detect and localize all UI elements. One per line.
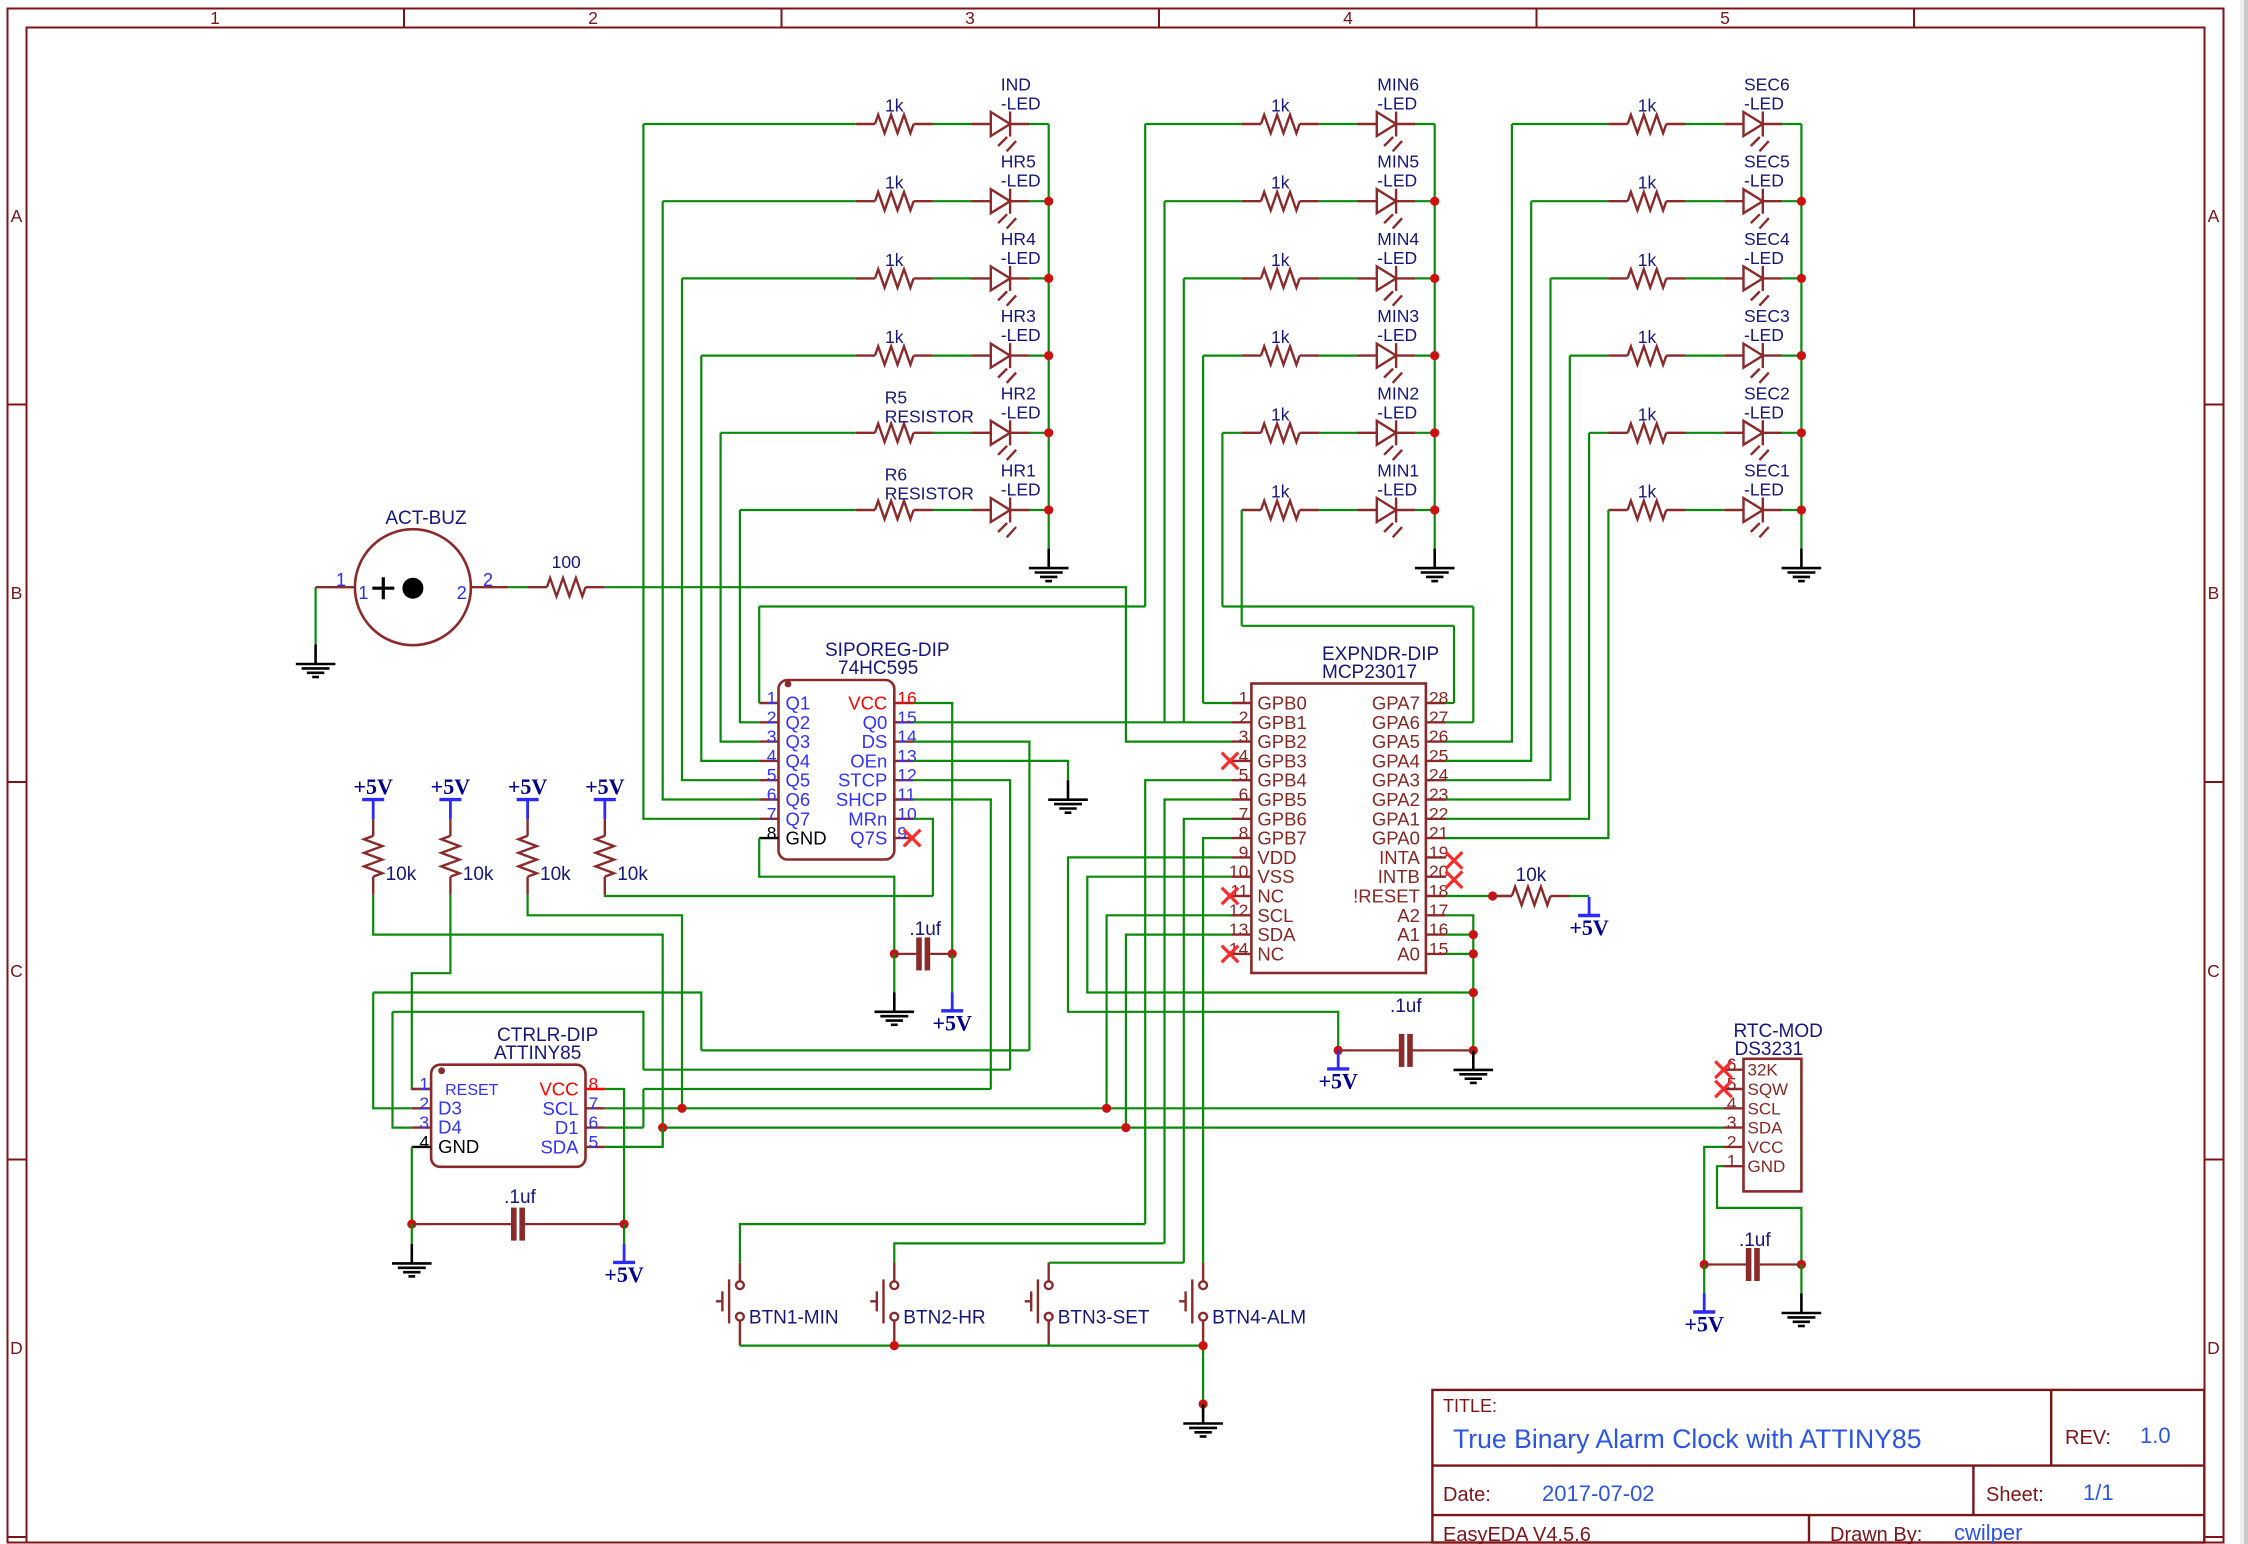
- U3 pin 6 D1: [586, 1126, 605, 1128]
- wire MIN4 row left: [1184, 277, 1242, 279]
- svg-text:1k: 1k: [885, 173, 904, 193]
- U2 pin 5 GPB4: [1232, 779, 1251, 781]
- wire HR5 mid: [933, 200, 972, 202]
- svg-text:1k: 1k: [1638, 404, 1657, 424]
- LED SEC1-LED: [1724, 498, 1782, 538]
- pushbutton BTN1-MIN: [716, 1263, 744, 1346]
- wire IND to cathode bus: [1029, 123, 1048, 125]
- wire VDD to +5V node: [1068, 857, 1338, 1050]
- svg-text:4: 4: [1343, 8, 1353, 28]
- U1 pin 9 Q7S: [894, 837, 913, 839]
- U2 pin 19 INTA: [1426, 856, 1446, 858]
- junction cathode bus: [1797, 351, 1806, 360]
- wire GPA2 to SEC drop: [1446, 356, 1570, 800]
- wire cap left to ground: [893, 954, 895, 992]
- svg-text:21: 21: [1429, 823, 1448, 843]
- U1 pin 7 Q7: [759, 818, 778, 820]
- svg-text:-LED: -LED: [1377, 171, 1417, 191]
- svg-text:BTN3-SET: BTN3-SET: [1058, 1307, 1150, 1328]
- U4 pin 5 SQW: [1724, 1088, 1744, 1090]
- svg-text:+5V: +5V: [1684, 1312, 1724, 1337]
- U1 pin 6 Q6: [759, 798, 778, 800]
- LED HR5-LED: [972, 189, 1030, 229]
- LED MIN1-LED: [1358, 498, 1416, 538]
- capacitor .1uf plates: [916, 937, 930, 970]
- svg-text:1k: 1k: [1638, 327, 1657, 347]
- junction SDA pullup: [658, 1123, 667, 1132]
- wire GPA7 stub link: [1446, 702, 1454, 704]
- svg-text:!RESET: !RESET: [1353, 886, 1420, 907]
- ground U4: [1782, 1294, 1822, 1327]
- svg-text:GPA7: GPA7: [1372, 693, 1420, 714]
- junction A1: [1469, 930, 1478, 939]
- LED MIN6-LED: [1358, 112, 1416, 152]
- wire HR1 row left: [740, 509, 856, 511]
- wire SEC5 mid: [1686, 200, 1725, 202]
- svg-text:Drawn By:: Drawn By:: [1830, 1524, 1922, 1544]
- svg-text:1.0: 1.0: [2140, 1423, 2171, 1448]
- svg-text:8: 8: [767, 823, 777, 843]
- U3 pin 7 SCL: [586, 1107, 605, 1109]
- svg-text:-LED: -LED: [1001, 480, 1041, 500]
- svg-text:2: 2: [588, 8, 598, 28]
- LED HR3-LED: [972, 343, 1030, 383]
- svg-text:18: 18: [1429, 881, 1448, 901]
- U2 pin 15 A0: [1426, 953, 1446, 955]
- LED HR4-LED: [972, 266, 1030, 306]
- U3 pin 2 D3: [412, 1107, 431, 1109]
- junction cap right: [948, 949, 957, 958]
- wire MIN1 to GPA7 (net): [1242, 625, 1454, 627]
- junction SCL pullup: [677, 1104, 686, 1113]
- wire SCL bus: [605, 1107, 1724, 1109]
- svg-text:B: B: [2208, 583, 2220, 603]
- svg-text:1k: 1k: [1271, 327, 1290, 347]
- resistor 1k for MIN3: [1242, 346, 1319, 364]
- svg-text:GPB2: GPB2: [1257, 731, 1306, 752]
- svg-text:10k: 10k: [386, 864, 417, 885]
- +5V U2: [1337, 1050, 1340, 1069]
- junction cathode bus: [1797, 274, 1806, 283]
- svg-text:R5: R5: [885, 387, 907, 407]
- svg-text:+5V: +5V: [353, 774, 393, 799]
- svg-text:1k: 1k: [1638, 173, 1657, 193]
- svg-text:GPA6: GPA6: [1372, 712, 1420, 733]
- svg-text:C: C: [10, 961, 23, 981]
- wire U2 SDA to bus: [1126, 935, 1232, 1128]
- wire pullup1 to SDA net: [373, 895, 663, 1147]
- wire A1 stub link: [1446, 933, 1473, 935]
- wire cap left to +5V: [1703, 1265, 1705, 1294]
- U1 pin 12 STCP: [894, 779, 913, 781]
- LED IND-LED: [972, 112, 1030, 152]
- svg-text:+5V: +5V: [508, 774, 548, 799]
- junction U4 cap right: [1797, 1260, 1806, 1269]
- U3 pin 8 VCC: [586, 1088, 605, 1090]
- resistor 10k pullup: [364, 819, 382, 895]
- svg-text:1/1: 1/1: [2083, 1480, 2114, 1505]
- wire GPB5 down to BTN2 jog: [1165, 800, 1233, 1244]
- IC U2 EXPNDR-DIP MCP23017: [1251, 684, 1426, 974]
- wire Q1 to MIN6 (net): [759, 605, 1145, 607]
- wire U4 GND down: [1717, 1166, 1801, 1264]
- svg-text:D: D: [10, 1338, 23, 1358]
- svg-text:SHCP: SHCP: [836, 789, 887, 810]
- ground buzzer: [296, 645, 336, 678]
- wire BTN2 to GPB5: [894, 1243, 1164, 1262]
- U3 pin 5 SDA: [586, 1146, 605, 1148]
- svg-text:+5V: +5V: [604, 1262, 644, 1287]
- svg-text:13: 13: [897, 746, 916, 766]
- svg-text:5: 5: [767, 765, 777, 785]
- wire HR1 to cathode bus: [1029, 509, 1048, 511]
- resistor 100: [528, 578, 605, 596]
- svg-text:1k: 1k: [885, 250, 904, 270]
- svg-text:GPB0: GPB0: [1257, 693, 1306, 714]
- +5V pullup R0: [372, 800, 375, 820]
- svg-text:MIN6: MIN6: [1377, 75, 1419, 95]
- resistor 1k for SEC4: [1608, 269, 1685, 287]
- svg-text:SCL: SCL: [543, 1098, 579, 1119]
- wire SEC3 mid: [1686, 355, 1725, 357]
- svg-text:SQW: SQW: [1748, 1080, 1789, 1099]
- wire SEC1 to cathode bus: [1782, 509, 1801, 511]
- svg-text:1: 1: [336, 570, 346, 590]
- svg-text:True Binary Alarm Clock with A: True Binary Alarm Clock with ATTINY85: [1453, 1424, 1921, 1454]
- svg-text:GPB7: GPB7: [1257, 828, 1306, 849]
- capacitor .1uf plates: [1399, 1034, 1413, 1067]
- U2 pin 21 GPA0: [1426, 837, 1446, 839]
- svg-text:MIN2: MIN2: [1377, 383, 1419, 403]
- svg-text:GND: GND: [1748, 1157, 1786, 1176]
- wire U1 VCC to +5V: [914, 703, 953, 954]
- wire MIN4 drop vertical: [1183, 278, 1185, 722]
- wire SEC6 mid: [1686, 123, 1725, 125]
- svg-text:Q3: Q3: [786, 731, 811, 752]
- wire cap right to +5V: [623, 1224, 625, 1244]
- svg-text:STCP: STCP: [838, 770, 887, 791]
- wire buzzer to MCP GPB2: [605, 587, 1232, 741]
- svg-text:1k: 1k: [1271, 482, 1290, 502]
- wire SEC3 row left: [1570, 355, 1609, 357]
- svg-text:MIN3: MIN3: [1377, 306, 1419, 326]
- svg-text:7: 7: [767, 804, 777, 824]
- resistor 1k for MIN2: [1242, 424, 1319, 442]
- wire MIN6 row left: [1145, 123, 1242, 125]
- resistor R6 RESISTOR for HR1: [856, 501, 933, 519]
- svg-text:SDA: SDA: [1257, 924, 1296, 945]
- svg-text:GPB1: GPB1: [1257, 712, 1306, 733]
- svg-text:7: 7: [1239, 804, 1249, 824]
- junction SDA U2: [1121, 1123, 1130, 1132]
- wire SEC4 row left: [1551, 277, 1609, 279]
- U1 pin 1 Q1: [759, 702, 778, 704]
- svg-text:10k: 10k: [1516, 865, 1547, 886]
- wire GPA6 vertical: [1472, 607, 1474, 723]
- svg-text:SCL: SCL: [1257, 905, 1293, 926]
- svg-text:1k: 1k: [1638, 250, 1657, 270]
- svg-text:Q4: Q4: [786, 750, 811, 771]
- no-connect X SQW: [1715, 1081, 1732, 1098]
- svg-text:HR5: HR5: [1001, 152, 1036, 172]
- frame column ticks top: [403, 9, 405, 28]
- svg-text:-LED: -LED: [1001, 171, 1041, 191]
- svg-text:-LED: -LED: [1001, 94, 1041, 114]
- svg-text:6: 6: [1239, 785, 1249, 805]
- U2 pin 27 GPA6: [1426, 721, 1446, 723]
- wire Q0 to GPB1: [914, 721, 1232, 723]
- wire DS net horizontal: [701, 1049, 1029, 1051]
- resistor 10k pullup: [518, 819, 536, 895]
- wire D1 vertical to SHCP net: [642, 1089, 644, 1128]
- svg-text:GPB5: GPB5: [1257, 789, 1306, 810]
- svg-text:GPA1: GPA1: [1372, 808, 1420, 829]
- junction cathode bus: [1797, 428, 1806, 437]
- U2 pin 1 GPB0: [1232, 702, 1251, 704]
- svg-text:2: 2: [457, 583, 467, 603]
- wire MIN1 to cathode bus: [1415, 509, 1434, 511]
- svg-text:MIN5: MIN5: [1377, 152, 1419, 172]
- window edge strip: [2240, 0, 2244, 1544]
- no-connect X 32K: [1715, 1061, 1732, 1078]
- wire BTN1 to GPB4: [740, 1224, 1145, 1263]
- buzzer pin 2: [471, 586, 508, 588]
- svg-text:-LED: -LED: [1001, 248, 1041, 268]
- svg-text:15: 15: [897, 707, 916, 727]
- svg-text:-LED: -LED: [1744, 171, 1784, 191]
- U3 pin 1 RESET: [412, 1088, 431, 1090]
- svg-text:3: 3: [1239, 727, 1249, 747]
- svg-text:+5V: +5V: [431, 774, 471, 799]
- resistor 1k for SEC6: [1608, 115, 1685, 133]
- U2 pin 7 GPB6: [1232, 818, 1251, 820]
- wire MIN1 drop vertical: [1241, 510, 1243, 626]
- LED SEC5-LED: [1724, 189, 1782, 229]
- ground LED column: [1782, 549, 1822, 582]
- svg-text:TITLE:: TITLE:: [1443, 1396, 1497, 1416]
- svg-text:14: 14: [897, 727, 917, 747]
- resistor 10k pullup: [596, 819, 614, 895]
- wire U3 SDA to bus: [605, 1128, 663, 1147]
- svg-text:2: 2: [767, 707, 777, 727]
- svg-text:VSS: VSS: [1257, 866, 1294, 887]
- svg-text:.1uf: .1uf: [909, 919, 941, 940]
- svg-text:17: 17: [1429, 900, 1448, 920]
- svg-text:2: 2: [483, 570, 493, 590]
- wire SEC2 row left: [1589, 432, 1608, 434]
- svg-text:ATTINY85: ATTINY85: [494, 1043, 581, 1064]
- svg-text:3: 3: [965, 8, 975, 28]
- LED SEC2-LED: [1724, 420, 1782, 460]
- svg-text:Q0: Q0: [863, 712, 888, 733]
- wire MIN2 to GPA6 (net): [1222, 605, 1473, 607]
- wire MIN6 drop vertical: [1144, 124, 1146, 607]
- wire SEC4 mid: [1686, 277, 1725, 279]
- svg-text:BTN1-MIN: BTN1-MIN: [749, 1307, 839, 1328]
- wire OEn to ground: [914, 761, 1068, 780]
- svg-text:MRn: MRn: [848, 808, 887, 829]
- svg-text:A0: A0: [1397, 943, 1420, 964]
- U2 pin 18 !RESET: [1426, 895, 1446, 897]
- U1 pin 11 SHCP: [894, 798, 913, 800]
- wire D4 net vertical: [393, 1012, 412, 1128]
- wire GPB0 to MIN3: [1203, 702, 1232, 704]
- resistor 1k for SEC3: [1608, 346, 1685, 364]
- wire buzzer to ground: [315, 587, 317, 644]
- no-connect X INTB: [1446, 871, 1463, 888]
- svg-text:SDA: SDA: [540, 1136, 579, 1157]
- wire Q5 to LED row: [682, 278, 759, 780]
- svg-text:+5V: +5V: [1318, 1068, 1358, 1093]
- svg-text:1k: 1k: [885, 327, 904, 347]
- svg-text:100: 100: [552, 552, 581, 572]
- wire U3 VCC down to cap: [605, 1089, 624, 1224]
- wire MIN3 drop vertical to GPB0: [1202, 356, 1204, 703]
- svg-text:1k: 1k: [1271, 404, 1290, 424]
- wire !RESET to 10k: [1446, 895, 1512, 897]
- U2 pin 3 GPB2: [1232, 740, 1251, 742]
- svg-text:10: 10: [897, 804, 917, 824]
- svg-text:26: 26: [1429, 727, 1448, 747]
- LED MIN4-LED: [1358, 266, 1416, 306]
- no-connect X NC11: [1222, 888, 1239, 905]
- wire pullup4 to MRn: [605, 895, 933, 896]
- svg-text:GND: GND: [438, 1136, 479, 1157]
- wire SEC6 row left: [1512, 123, 1609, 125]
- no-connect X GPB3: [1222, 753, 1239, 770]
- svg-text:25: 25: [1429, 746, 1448, 766]
- svg-text:D3: D3: [438, 1097, 462, 1118]
- wire STCP down: [914, 780, 1011, 1069]
- +5V U1: [951, 992, 954, 1011]
- wire GPA7 vertical: [1453, 626, 1455, 703]
- U3 pin 4 GND: [412, 1146, 431, 1148]
- svg-text:ACT-BUZ: ACT-BUZ: [385, 508, 467, 529]
- wire GPB4 down to BTN1 jog: [1145, 780, 1232, 1224]
- svg-text:-LED: -LED: [1377, 94, 1417, 114]
- LED MIN3-LED: [1358, 343, 1416, 383]
- svg-text:27: 27: [1429, 707, 1448, 727]
- U4 pin 2 VCC: [1724, 1146, 1744, 1148]
- svg-text:74HC595: 74HC595: [838, 658, 918, 679]
- svg-text:5: 5: [1239, 765, 1249, 785]
- wire MIN4 to cathode bus: [1415, 277, 1434, 279]
- svg-text:1: 1: [358, 583, 368, 603]
- svg-text:Date:: Date:: [1443, 1484, 1491, 1506]
- svg-text:1k: 1k: [1271, 96, 1290, 116]
- junction cathode bus: [1797, 197, 1806, 206]
- wire 10k to +5V: [1570, 895, 1589, 897]
- wire GPB6 down to BTN3 jog: [1184, 819, 1232, 1263]
- wire GPA5 to SEC drop: [1446, 124, 1512, 742]
- wire Q3 to LED row: [721, 433, 760, 742]
- junction U3 cap left: [407, 1220, 416, 1229]
- U1 pin 13 OEn: [894, 760, 913, 762]
- U2 pin 17 A2: [1426, 914, 1446, 916]
- pushbutton BTN3-SET: [1025, 1263, 1053, 1346]
- svg-text:VCC: VCC: [848, 693, 887, 714]
- junction U2 cap left: [1334, 1046, 1343, 1055]
- svg-text:1: 1: [419, 1074, 429, 1094]
- wire buzzer to 100 ohm: [508, 586, 527, 588]
- U2 pin 16 A1: [1426, 933, 1446, 935]
- LED HR1-LED: [972, 498, 1030, 538]
- wire Q1 vertical: [758, 607, 760, 704]
- svg-text:MIN4: MIN4: [1377, 229, 1419, 249]
- svg-text:MIN1: MIN1: [1377, 461, 1419, 481]
- svg-text:Q5: Q5: [786, 770, 811, 791]
- svg-text:+5V: +5V: [1569, 915, 1609, 940]
- svg-text:22: 22: [1429, 804, 1448, 824]
- U1 pin 5 Q5: [759, 779, 778, 781]
- svg-text:2017-07-02: 2017-07-02: [1542, 1481, 1655, 1506]
- wire cathode bus vertical: [1048, 124, 1050, 549]
- U1 pin 8 GND: [759, 837, 778, 839]
- pushbutton BTN4-ALM: [1179, 1263, 1207, 1346]
- svg-text:1: 1: [1727, 1151, 1737, 1171]
- svg-text:GPB3: GPB3: [1257, 750, 1306, 771]
- no-connect X INTA: [1446, 852, 1463, 869]
- U2 pin 10 VSS: [1232, 876, 1251, 878]
- svg-text:VCC: VCC: [539, 1079, 578, 1100]
- U1 pin 2 Q2: [759, 721, 778, 723]
- junction cathode bus: [1044, 197, 1053, 206]
- wire HR2 row left: [721, 432, 856, 434]
- svg-text:NC: NC: [1257, 886, 1284, 907]
- wire HR1 mid: [933, 509, 972, 511]
- svg-text:-LED: -LED: [1377, 480, 1417, 500]
- svg-text:SEC6: SEC6: [1744, 75, 1790, 95]
- svg-text:GPA0: GPA0: [1372, 828, 1420, 849]
- resistor 1k for MIN6: [1242, 115, 1319, 133]
- svg-text:10: 10: [1229, 862, 1249, 882]
- svg-text:VCC: VCC: [1748, 1138, 1784, 1157]
- svg-text:OEn: OEn: [850, 750, 887, 771]
- svg-text:-LED: -LED: [1744, 94, 1784, 114]
- wire GPA1 to SEC drop: [1446, 433, 1589, 819]
- svg-text:D4: D4: [438, 1117, 462, 1138]
- U2 pin 14 NC: [1232, 953, 1251, 955]
- junction U2 cap right: [1469, 1046, 1478, 1055]
- svg-text:24: 24: [1429, 765, 1449, 785]
- wire MIN5 mid: [1319, 200, 1358, 202]
- svg-text:1k: 1k: [1271, 250, 1290, 270]
- U2 pin 2 GPB1: [1232, 721, 1251, 723]
- junction cathode bus: [1430, 505, 1439, 514]
- resistor 1k for HR3: [856, 346, 933, 364]
- svg-text:RESISTOR: RESISTOR: [885, 406, 974, 426]
- buzzer pin 1: [316, 586, 355, 588]
- wire SEC5 row left: [1531, 200, 1608, 202]
- wire DS down: [914, 742, 1030, 1051]
- resistor 1k for MIN5: [1242, 192, 1319, 210]
- svg-text:10k: 10k: [463, 864, 494, 885]
- svg-text:SCL: SCL: [1748, 1099, 1781, 1118]
- svg-text:15: 15: [1429, 939, 1448, 959]
- no-connect X on Q7S: [904, 830, 921, 847]
- wire cathode bus vertical: [1434, 124, 1436, 549]
- U4 pin 4 SCL: [1724, 1107, 1744, 1109]
- junction cathode bus: [1797, 505, 1806, 514]
- resistor 1k for SEC5: [1608, 192, 1685, 210]
- +5V pullup R2: [526, 800, 529, 820]
- svg-text:23: 23: [1429, 785, 1448, 805]
- wire Q2 to LED row: [740, 510, 759, 722]
- svg-text:Sheet:: Sheet:: [1986, 1484, 2044, 1506]
- wire IND mid: [933, 123, 972, 125]
- wire SEC2 mid: [1686, 432, 1725, 434]
- svg-text:INTA: INTA: [1379, 847, 1420, 868]
